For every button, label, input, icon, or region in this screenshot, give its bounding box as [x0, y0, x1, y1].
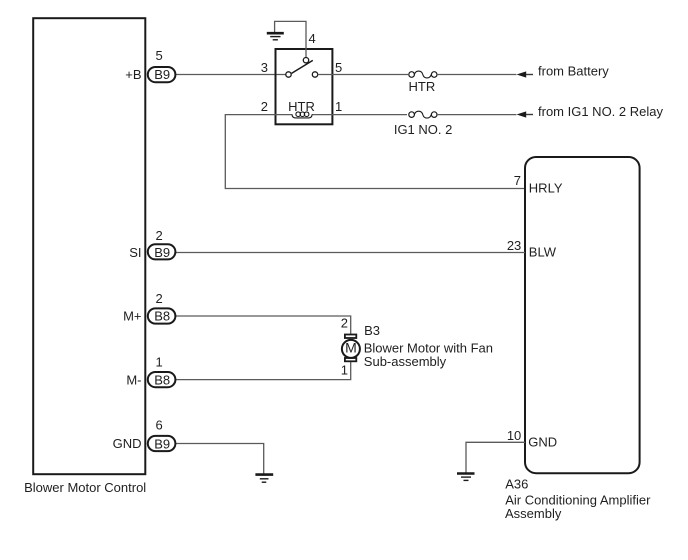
wire +B (pin 5) to relay pin 3	[176, 74, 286, 76]
component box: A36 Air Conditioning Amplifier Assembly	[525, 157, 640, 473]
svg-text:1: 1	[335, 99, 342, 114]
svg-text:M+: M+	[123, 309, 141, 324]
svg-text:B9: B9	[154, 436, 170, 451]
svg-text:5: 5	[335, 60, 342, 75]
wire M+ to motor	[176, 316, 351, 335]
motor B3 Blower Motor with Fan Sub-assembly	[342, 335, 360, 362]
connector terminal B9 (SI)	[148, 244, 176, 260]
ground (relay)	[267, 33, 284, 40]
connector terminal B8 (M+)	[148, 308, 176, 323]
svg-text:GND: GND	[113, 436, 142, 451]
svg-text:HTR: HTR	[409, 79, 436, 94]
relay switch contacts	[286, 58, 318, 78]
wire SI to BLW pin 23	[176, 252, 525, 254]
svg-text:6: 6	[156, 418, 163, 433]
svg-text:23: 23	[507, 238, 521, 253]
svg-text:B3: B3	[364, 323, 380, 338]
wire fuse HTR to battery arrow	[437, 74, 516, 76]
svg-text:2: 2	[261, 99, 268, 114]
svg-text:+B: +B	[125, 67, 141, 82]
svg-text:from Battery: from Battery	[538, 64, 609, 79]
svg-text:M-: M-	[126, 372, 141, 387]
svg-text:3: 3	[261, 60, 268, 75]
svg-text:A36: A36	[505, 477, 528, 492]
svg-text:5: 5	[156, 48, 163, 63]
svg-text:1: 1	[156, 354, 163, 369]
relay coil wire pins 2-1	[275, 114, 293, 116]
svg-text:7: 7	[514, 173, 521, 188]
wire relay pin 1 to fuse IG1	[332, 114, 407, 116]
svg-text:GND: GND	[528, 435, 557, 450]
connector terminal B9 (+B)	[148, 67, 176, 82]
svg-text:Sub-assembly: Sub-assembly	[364, 354, 447, 369]
fuse HTR	[409, 71, 437, 94]
connector terminal B8 (M-)	[148, 372, 176, 387]
svg-text:M: M	[345, 340, 357, 356]
svg-text:B9: B9	[154, 67, 170, 82]
component box: Blower Motor Control	[33, 18, 145, 474]
arrow from Battery	[517, 71, 527, 77]
relay pin 4 wire and ground lead	[275, 21, 306, 57]
svg-text:Blower Motor Control: Blower Motor Control	[24, 480, 146, 495]
svg-text:2: 2	[156, 228, 163, 243]
arrow from IG1 NO. 2 Relay	[517, 111, 527, 117]
wire relay pin 2 to HRLY pin 7	[225, 115, 525, 189]
ground (left)	[255, 475, 273, 483]
relay coil HTR	[288, 99, 315, 118]
svg-text:B8: B8	[154, 309, 170, 324]
relay box HTR	[276, 49, 333, 124]
wire relay pin 5 to fuse HTR	[317, 74, 408, 76]
wire M- to motor	[176, 361, 351, 380]
svg-text:4: 4	[309, 31, 316, 46]
wire GND pin 10 (A36) to ground	[466, 442, 525, 472]
svg-text:1: 1	[341, 363, 348, 378]
svg-text:B8: B8	[154, 372, 170, 387]
connector terminal B9 (GND)	[148, 436, 176, 452]
svg-text:2: 2	[156, 291, 163, 306]
fuse IG1 NO. 2	[394, 111, 453, 137]
svg-text:from IG1 NO. 2 Relay: from IG1 NO. 2 Relay	[538, 104, 663, 119]
svg-text:2: 2	[341, 316, 348, 331]
svg-text:B9: B9	[154, 245, 170, 260]
wire GND (left) to ground	[176, 444, 264, 474]
svg-text:Assembly: Assembly	[505, 506, 562, 521]
ground (A36)	[457, 474, 475, 481]
svg-text:HRLY: HRLY	[529, 181, 563, 196]
svg-text:BLW: BLW	[529, 244, 557, 259]
svg-text:IG1 NO. 2: IG1 NO. 2	[394, 122, 453, 137]
svg-text:10: 10	[507, 428, 521, 443]
wire fuse IG1 to relay arrow	[437, 114, 516, 116]
svg-text:SI: SI	[129, 245, 141, 260]
